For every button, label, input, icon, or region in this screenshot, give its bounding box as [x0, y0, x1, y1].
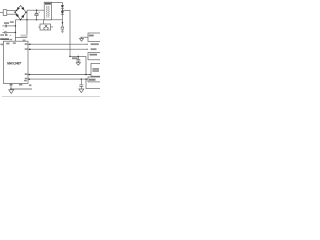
capacitor C5 [76, 56, 80, 62]
node [10, 88, 12, 90]
pin stub x24 [23, 40, 25, 41]
ground G3 [76, 63, 80, 65]
wire: signal RO [28, 43, 88, 45]
node: rectified out [62, 10, 64, 12]
label: near wire end [29, 84, 31, 86]
wire: VCC route horizontal [15, 36, 27, 38]
wire: GND pin down [10, 83, 12, 89]
label: RO end [91, 43, 99, 45]
label: pins below box [9, 84, 12, 86]
wire: secondary top [52, 1, 63, 3]
wire: corner to y88.6 [86, 79, 100, 89]
wire: gnd feed to box A [80, 36, 88, 38]
box C [91, 64, 101, 77]
AC plug J1 [0, 10, 17, 16]
wire: left riser x15.4 [14, 20, 16, 41]
node: C1 bottom on rail [36, 19, 37, 20]
label: caption left [0, 38, 9, 40]
node: riser/C2 [15, 25, 17, 27]
node: bridge AC1 [16, 10, 18, 12]
bridge rectifier BR1 [15, 6, 26, 20]
label: C2 value [4, 22, 9, 24]
wire: W2 [28, 78, 88, 80]
wire: W1 [28, 74, 91, 76]
arrow W1 [89, 74, 90, 75]
wire: gnd run right [11, 88, 32, 90]
node: bridge + out [25, 11, 27, 13]
diode D2 [61, 10, 64, 26]
node: riser crossing rail [26, 19, 27, 20]
node: C5 tap [78, 56, 80, 58]
label: C5 value [72, 57, 78, 59]
node [29, 43, 31, 45]
IC U1 MAX1487 [3, 41, 28, 83]
ground G4 [79, 89, 84, 93]
label: C3 value [10, 21, 14, 23]
node: chain/cap [62, 22, 64, 24]
label: DI end [91, 48, 97, 50]
node: bridge left [14, 11, 16, 13]
capacitor C1 (smoothing, polarized) [35, 10, 41, 20]
wire: top rail [27, 9, 44, 11]
transformer T1 [44, 2, 51, 20]
wire: x86 drop [85, 56, 87, 74]
box A [88, 33, 101, 42]
ground G1 [80, 37, 84, 41]
diode D1 [61, 2, 64, 10]
svg-text:MAX1487: MAX1487 [7, 62, 22, 66]
node: diamond bottom on rail [20, 19, 21, 20]
wire: VCC tee [70, 55, 86, 57]
arrow RO [87, 44, 88, 45]
label: pin names right edge [25, 43, 28, 45]
node: riser/C3 [15, 32, 17, 34]
label: marks row [0, 34, 4, 35]
node: rail end [69, 56, 71, 58]
box D [88, 77, 101, 82]
label: above box left [9, 39, 12, 40]
wire: right rail x70 [69, 10, 71, 56]
label: above box right [23, 40, 26, 41]
node [29, 48, 31, 50]
capacitor C6 [79, 79, 83, 89]
ground G5 [9, 90, 14, 94]
node: bridge AC2 [16, 13, 18, 15]
label: inside top pins [6, 43, 9, 45]
label: left of box [0, 44, 3, 46]
figure rule [2, 96, 100, 98]
ground G2 [61, 31, 64, 33]
arrow DI [87, 49, 88, 50]
capacitor C3 (polarized) [2, 29, 15, 34]
label: faint value [21, 35, 28, 37]
node: circle mark [5, 34, 7, 36]
wire: to right rail [62, 9, 70, 11]
capacitor C2 [2, 25, 15, 28]
wire: signal DI [28, 48, 88, 50]
box B [88, 53, 101, 60]
capacitor C4 (polarized to gnd) [61, 26, 64, 31]
wire: bottom rail [15, 19, 62, 21]
wire: bridge + to x27 riser [26, 10, 27, 37]
box E driver [38, 20, 53, 30]
node: C1 top [36, 9, 38, 11]
